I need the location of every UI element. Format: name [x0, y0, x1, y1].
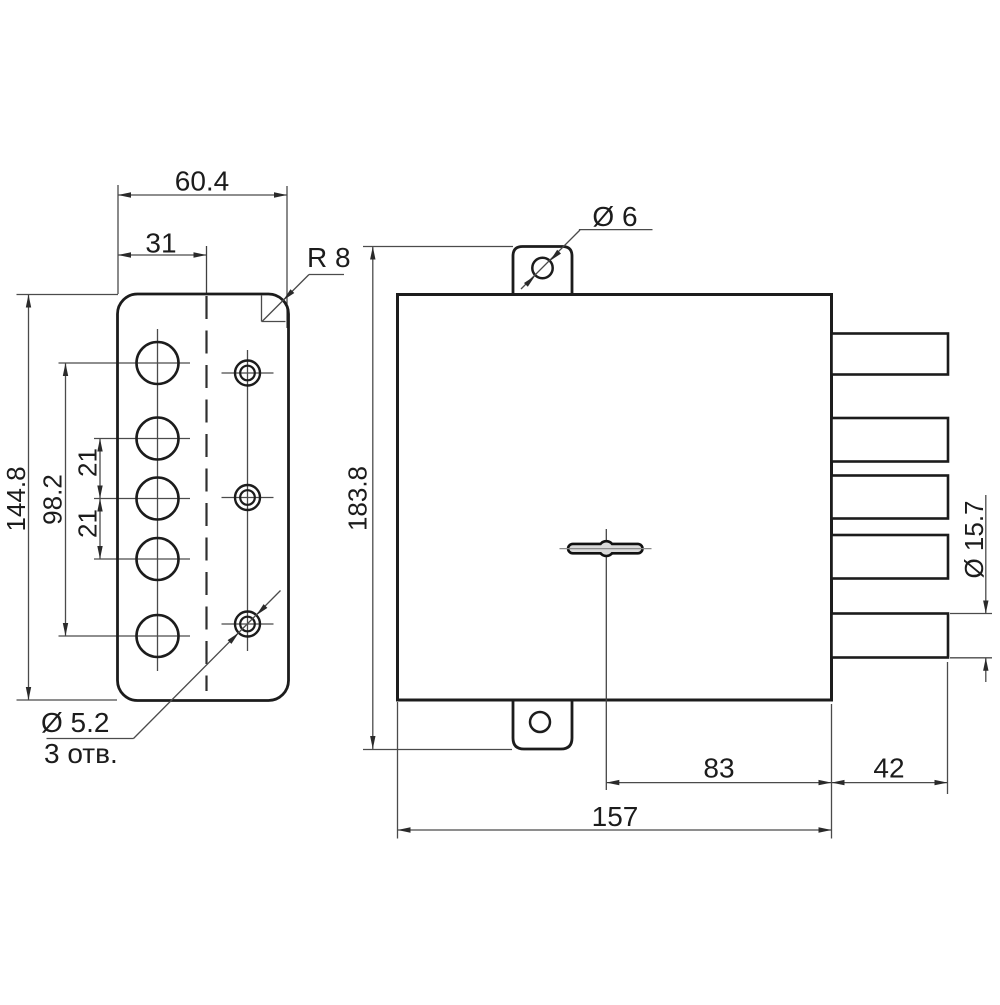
cylinder vertical centerline: [605, 529, 607, 790]
dimension 144.8 line: [28, 295, 30, 701]
dimension 15.7 lower line: [985, 658, 987, 682]
crosshair bolt hole 5: [59, 635, 191, 637]
bolt hole circle 2 (front view): [137, 418, 179, 460]
dimension 21 lower arrow top: [97, 499, 102, 512]
extension line 183.8 bottom: [363, 749, 512, 751]
corner notch horizontal line: [262, 321, 286, 323]
top mounting tab: [513, 247, 572, 295]
screw hole 2 outer circle: [235, 485, 260, 510]
diameter 6 leader diagonal: [521, 230, 580, 289]
svg-text:98.2: 98.2: [38, 474, 68, 525]
locking bolt 3 (side view): [832, 476, 949, 519]
top tab hole (diam 6): [532, 258, 552, 278]
bolt hole circle 3 (front view): [137, 478, 179, 520]
extension line bolt end bottom: [947, 662, 949, 794]
svg-text:21: 21: [73, 448, 103, 477]
dimension 183.8 line: [372, 247, 374, 750]
crosshair screw hole 1: [222, 372, 274, 374]
bottom mounting tab: [513, 701, 572, 750]
vertical centerline of screw holes: [247, 350, 249, 651]
svg-text:21: 21: [73, 509, 103, 538]
screw hole 1 inner circle: [240, 366, 255, 381]
dimension 83 arrow left: [606, 780, 619, 785]
diameter 5.2 arrow lower: [228, 633, 239, 644]
centerline dashed (plate axis): [205, 296, 207, 691]
crosshair screw hole 2: [222, 497, 274, 499]
dimension 98.2 arrow bottom: [63, 623, 68, 636]
dimension 60.4 line: [118, 194, 287, 196]
lock body outline (side view): [398, 295, 832, 701]
locking bolt 2 (side view): [832, 418, 949, 462]
dimension 42 arrow right: [935, 780, 948, 785]
crosshair screw hole 3: [222, 623, 274, 625]
extension line body left bottom: [397, 702, 399, 839]
dimension 183.8 arrow top: [370, 247, 375, 260]
diameter 6 arrow lower: [524, 276, 535, 287]
svg-text:Ø 5.2: Ø 5.2: [41, 707, 109, 738]
diameter 5.2 leader diagonal: [134, 591, 281, 739]
screw hole 3 outer circle: [235, 612, 260, 637]
extension line bolt bottom (15.7): [950, 657, 992, 659]
extension line bolt top (15.7): [950, 613, 992, 615]
dimension 144.8 arrow bottom: [26, 687, 31, 700]
svg-text:183.8: 183.8: [343, 466, 373, 531]
extension line top-left (144.8 top): [17, 294, 119, 296]
svg-text:157: 157: [592, 801, 639, 832]
R8 leader horizontal: [309, 274, 344, 276]
centerline solid upper part: [206, 246, 208, 295]
extension line left vertical (60.4/31 left): [117, 185, 119, 294]
bolt hole circle 1 (front view): [137, 342, 179, 384]
dimension 42 arrow left: [832, 780, 845, 785]
screw hole 1 outer circle: [235, 361, 260, 386]
crosshair bolt hole 3: [94, 498, 190, 500]
dimension 183.8 arrow bottom: [370, 736, 375, 749]
plate outline (front view 60.4x144.8 R8): [118, 294, 289, 701]
dimension 15.7 arrow upper: [983, 601, 988, 614]
screw hole 2 inner circle: [240, 490, 255, 505]
crosshair bolt hole 2: [94, 438, 190, 440]
dimension 60.4 arrow left: [118, 192, 131, 197]
diameter 6 leader horizontal: [579, 229, 653, 231]
dimension 21 upper arrow top: [97, 439, 102, 452]
keyhole horizontal centerline: [560, 548, 652, 550]
R8 leader arrow: [283, 289, 294, 300]
diameter 5.2 arrow upper: [256, 604, 267, 615]
dimension 144.8 arrow top: [26, 295, 31, 308]
dimension 42 line: [832, 782, 948, 784]
dimension 21 upper arrow bottom: [97, 486, 102, 499]
svg-text:Ø 15.7: Ø 15.7: [959, 500, 989, 578]
dimension 83 line: [606, 782, 831, 784]
svg-text:31: 31: [145, 228, 176, 259]
svg-text:60.4: 60.4: [175, 166, 230, 197]
bolt hole circle 5 (front view): [137, 615, 179, 657]
crosshair bolt hole 4: [94, 558, 190, 560]
dimension 83 arrow right: [819, 780, 832, 785]
dimension 21 lower line: [99, 499, 101, 560]
svg-text:144.8: 144.8: [1, 466, 31, 531]
crosshair bolt hole 1: [59, 362, 191, 364]
svg-text:83: 83: [703, 753, 734, 784]
bolt hole circle 4 (front view): [137, 538, 179, 580]
diameter 5.2 leader underline: [47, 738, 134, 740]
dimension 31 arrow right: [194, 252, 207, 257]
dimension 15.7 arrow lower: [983, 658, 988, 671]
screw hole 3 inner circle: [240, 617, 255, 632]
dimension 157 arrow left: [398, 827, 411, 832]
dimension 21 lower arrow bottom: [97, 546, 102, 559]
diameter 6 arrow upper: [550, 250, 561, 261]
svg-text:42: 42: [873, 753, 904, 784]
extension line right vertical (60.4 right): [286, 186, 288, 328]
dimension 31 line: [118, 254, 207, 256]
svg-text:Ø 6: Ø 6: [592, 201, 637, 232]
dimension 157 arrow right: [819, 827, 832, 832]
svg-text:R 8: R 8: [307, 242, 351, 273]
svg-text:3 отв.: 3 отв.: [44, 738, 118, 769]
dimension 98.2 arrow top: [63, 363, 68, 376]
extension line body right bottom: [831, 704, 833, 839]
extension line bottom-left (144.8 bottom): [17, 699, 118, 701]
locking bolt 1 (side view): [832, 334, 949, 375]
dimension 60.4 arrow right: [274, 192, 287, 197]
locking bolt 4 (side view): [832, 535, 949, 579]
keyhole silhouette: [567, 540, 644, 557]
dimension 31 arrow left: [118, 252, 131, 257]
dimension 15.7 upper line: [985, 495, 987, 614]
R8 leader diagonal: [262, 275, 309, 322]
bottom tab hole: [530, 712, 550, 732]
locking bolt 5 (side view): [832, 614, 949, 658]
corner notch vertical line: [261, 296, 263, 322]
dimension 98.2 line: [65, 363, 67, 636]
extension line 183.8 top: [363, 246, 513, 248]
dimension 157 line: [398, 829, 832, 831]
dimension 21 upper line: [99, 439, 101, 499]
vertical centerline of bolt holes: [157, 329, 159, 671]
